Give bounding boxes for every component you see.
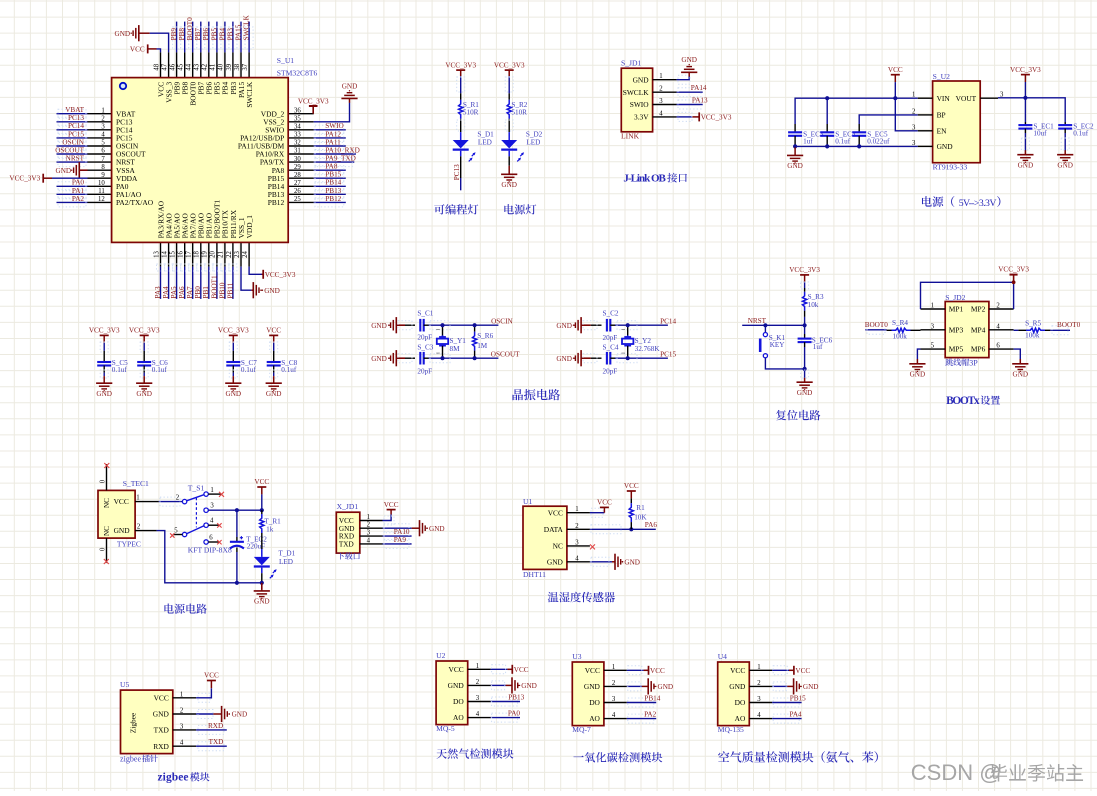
wire net PB0 (pin 18) [197, 264, 205, 299]
wire S_EC2 to GND [1061, 133, 1069, 151]
svg-text:26: 26 [294, 188, 301, 195]
svg-text:PA6: PA6 [645, 521, 658, 529]
net label PA0 [508, 710, 521, 718]
net label PA15 [234, 24, 242, 40]
svg-text:zigbee: zigbee [158, 772, 189, 784]
wire pin4 PA9 [383, 539, 412, 548]
net label PA12 [325, 130, 341, 138]
svg-text:29: 29 [294, 164, 301, 171]
wire net PA9_TXD (pin 30) [314, 158, 355, 167]
svg-text:2: 2 [137, 523, 141, 530]
svg-text:DO: DO [589, 698, 600, 707]
wire BOOT0 left to S_R4 [865, 325, 886, 334]
ground symbol GND below S_C6 [136, 376, 152, 398]
wire to GND [261, 583, 263, 589]
wire VCC_3V3 to R3 [801, 282, 809, 290]
wire net PA8 (pin 29) [314, 166, 346, 175]
junction VOUT/VCC_3V3 [1023, 96, 1027, 100]
switch T_S1 blade 5-4 [187, 526, 204, 534]
svg-text:PA0: PA0 [508, 710, 521, 718]
svg-text:DHT11: DHT11 [523, 570, 546, 579]
svg-text:SWCLK: SWCLK [243, 14, 251, 40]
svg-text:36: 36 [294, 107, 301, 114]
connector S_JD2 body [945, 302, 989, 358]
wire D2 cathode to GND [508, 156, 510, 166]
svg-text:PA2: PA2 [644, 711, 657, 719]
ground symbol GND reset [797, 378, 813, 397]
wire net OSCOUT (pin 6) [57, 150, 88, 159]
junction R1/DATA [629, 527, 633, 531]
wire T_EC2 branch [236, 510, 238, 537]
svg-text:GND: GND [787, 162, 803, 170]
svg-text:GND: GND [681, 56, 697, 64]
pin 3 stub S_U2 left [912, 124, 933, 131]
svg-text:MP1: MP1 [949, 305, 964, 314]
ground symbol GND below D2 [501, 166, 517, 189]
wire pin2 to GND [772, 682, 787, 691]
svg-text:22: 22 [226, 251, 233, 258]
net label PB15 [790, 695, 806, 703]
net label PA10 [394, 528, 410, 536]
svg-text:AO: AO [453, 713, 464, 722]
pin 1 stub U1 [567, 506, 590, 513]
svg-text:TXD: TXD [154, 726, 170, 735]
svg-text:3: 3 [476, 695, 480, 702]
svg-text:PA14: PA14 [691, 84, 707, 92]
net label PB9 [170, 28, 178, 41]
wire PA13 [677, 100, 703, 109]
switch T_S1 blade 2-1 [187, 495, 204, 501]
svg-text:42: 42 [202, 63, 209, 70]
svg-text:S_R4: S_R4 [892, 319, 908, 327]
svg-text:STM32C8T6: STM32C8T6 [277, 68, 318, 77]
designator S_JD2 [945, 293, 965, 302]
wire pin 23 VSS_1 to GND [241, 267, 251, 291]
svg-text:GND: GND [429, 525, 445, 533]
pin 47 top stub [161, 52, 168, 77]
svg-text:PB14: PB14 [644, 695, 660, 703]
pin 2 GND stub [135, 523, 157, 530]
module U2 MQ-5 body [436, 661, 468, 725]
svg-text:GND: GND [658, 683, 674, 691]
svg-text:5: 5 [931, 343, 935, 350]
svg-text:S_R6: S_R6 [477, 332, 493, 340]
pin 2 stub U4 [749, 680, 772, 687]
wire net PB8 (pin 45) [181, 22, 189, 53]
wire net VBAT (pin 1) [57, 109, 88, 118]
svg-text:2: 2 [757, 680, 761, 687]
pin 35 right stub [288, 116, 314, 123]
svg-text:47: 47 [161, 63, 168, 70]
svg-text:VCC_3V3: VCC_3V3 [789, 266, 820, 274]
svg-text:PB4: PB4 [218, 28, 226, 41]
svg-text:BOOTx: BOOTx [946, 395, 980, 407]
svg-text:U2: U2 [436, 651, 445, 660]
svg-text:10: 10 [98, 180, 105, 187]
svg-text:PB12: PB12 [325, 195, 341, 203]
net label PA3 [154, 286, 162, 299]
svg-text:3: 3 [612, 696, 616, 703]
svg-text:PC15: PC15 [660, 350, 676, 358]
svg-text:J-Link OB: J-Link OB [623, 173, 666, 185]
junction VCC/loop corner [1012, 280, 1016, 284]
net label PA0 [72, 179, 85, 187]
wire pin1 loop to pin2 and VCC_3V3 [921, 282, 1014, 309]
pin 2 stub X_JD1 [360, 522, 383, 529]
wire GND to S_C2 [581, 321, 601, 330]
wire GND rail [795, 145, 918, 147]
svg-text:3: 3 [180, 723, 184, 730]
capacitor S_C2 20pF [603, 310, 619, 342]
svg-text:U5: U5 [120, 680, 129, 689]
wire net PB9 (pin 46) [173, 22, 181, 53]
net label OSCIN [62, 138, 84, 146]
pin 16 bottom stub [178, 242, 185, 266]
pin 1 stub S_U2 left [912, 92, 933, 99]
svg-text:VCC_3V3: VCC_3V3 [89, 327, 120, 335]
svg-text:KFT DIP-8X8: KFT DIP-8X8 [188, 546, 232, 555]
net label PA1 [72, 187, 85, 195]
designator U3 [572, 652, 581, 661]
svg-text:VCC: VCC [795, 667, 810, 675]
svg-text:GND: GND [232, 711, 248, 719]
label 下载口 [337, 552, 360, 559]
svg-text:S_JD1: S_JD1 [621, 58, 641, 67]
svg-text:S_R3: S_R3 [808, 293, 824, 301]
wire pin2 to GND [627, 682, 642, 691]
wire S_C2 to PC14 [610, 321, 668, 330]
svg-text:3: 3 [367, 530, 371, 537]
pin 14 bottom stub [161, 242, 168, 266]
svg-text:10k: 10k [808, 301, 819, 309]
connector S_JD1 body [621, 68, 652, 132]
pin 3 stub U4 [749, 696, 772, 703]
wire net PA12 (pin 33) [314, 133, 346, 142]
pin 3 stub U5 [173, 723, 196, 730]
svg-text:VCC: VCC [114, 497, 129, 506]
svg-text:20pF: 20pF [603, 367, 618, 375]
pin 2 stub S_JD1 [653, 86, 677, 93]
resistor S_R2 510R [507, 93, 528, 119]
svg-text:510R: 510R [511, 108, 527, 116]
ground symbol GND right of X_JD1 [412, 520, 428, 536]
svg-text:30: 30 [294, 156, 301, 163]
capacitor S_EC5 0.022uf [852, 124, 890, 146]
svg-text:4: 4 [659, 110, 663, 117]
net label PB13 [325, 187, 341, 195]
svg-text:MP6: MP6 [971, 345, 986, 354]
pin 4 stub S_JD1 [653, 110, 677, 117]
net label PC14 [660, 317, 676, 325]
power VCC_3V3 above S_R1 [445, 61, 476, 76]
net label PA9 [394, 536, 407, 544]
net label PA10_RXD [325, 146, 359, 154]
svg-text:PC14: PC14 [660, 317, 676, 325]
svg-text:1: 1 [180, 691, 183, 698]
pin 3 stub S_JD2 left [921, 323, 946, 330]
pin 42 top stub [202, 52, 209, 77]
pin 22 bottom stub [226, 242, 233, 266]
svg-text:VCC_3V3: VCC_3V3 [129, 327, 160, 335]
power VCC U2 [507, 665, 528, 674]
svg-text:PA8: PA8 [325, 163, 338, 171]
svg-text:T_S1: T_S1 [188, 483, 205, 492]
svg-text:2: 2 [101, 116, 105, 123]
svg-text:25: 25 [294, 196, 301, 203]
sensor U1 DHT11 body [523, 506, 567, 569]
svg-text:PA13: PA13 [692, 96, 708, 104]
wire pin3 PB13 [491, 697, 520, 706]
svg-text:KEY: KEY [770, 341, 786, 349]
svg-text:RXD: RXD [339, 533, 354, 541]
value MQ-135 [718, 725, 744, 734]
pin 33 right stub [288, 132, 314, 139]
svg-text:0.1uf: 0.1uf [281, 366, 297, 374]
power VCC above X_JD1 [384, 501, 399, 515]
wire GND to S_C3 [396, 354, 415, 363]
wire net PB10 (pin 21) [221, 264, 229, 299]
net label PA9_TXD [325, 155, 356, 163]
title 可编程灯 [434, 204, 478, 214]
power VCC above S_U2 [888, 66, 903, 82]
junction S_Y2 top [626, 323, 630, 327]
svg-text:23: 23 [234, 251, 241, 258]
watermark CSDN @毕业季站主 [911, 760, 1083, 785]
svg-text:PA15: PA15 [234, 24, 242, 40]
svg-text:SWIO: SWIO [630, 100, 650, 109]
svg-text:5: 5 [174, 527, 178, 534]
svg-text:VCC: VCC [650, 667, 665, 675]
wire VCC_3V3 pin 9 [52, 177, 88, 179]
ground symbol GND below S_EC1 [1017, 150, 1033, 169]
pin 1 left stub [88, 107, 112, 114]
ground symbol GND power circuit [254, 589, 270, 606]
net label PA4 [162, 286, 170, 299]
power VCC_3V3 above S_C6 [129, 327, 160, 343]
svg-text:18: 18 [194, 251, 201, 258]
svg-text:GND: GND [136, 390, 152, 398]
svg-text:PA1: PA1 [72, 187, 85, 195]
connector S_TEC1 TYPEC body [98, 490, 135, 538]
svg-text:DATA: DATA [544, 525, 564, 534]
svg-text:4: 4 [180, 740, 184, 747]
svg-text:GND: GND [226, 390, 242, 398]
svg-text:TYPEC: TYPEC [117, 539, 141, 548]
wire S_C4 to PC15 [610, 354, 668, 363]
svg-text:VOUT: VOUT [956, 94, 977, 103]
wire NRST node [742, 317, 804, 325]
net label PC14 [68, 122, 84, 130]
wire pin1 to VCC [196, 688, 211, 702]
svg-text:13: 13 [153, 251, 160, 258]
junction VIN/VCC [893, 96, 897, 100]
pin 1 stub U2 [468, 663, 491, 670]
svg-text:X_JD1: X_JD1 [337, 502, 359, 511]
svg-text:VBAT: VBAT [65, 106, 84, 114]
power VCC above U5 [204, 672, 219, 689]
svg-text:MP3: MP3 [949, 325, 964, 334]
pin 0 top stub with no-connect [99, 463, 109, 490]
net label PC15 [68, 130, 84, 138]
svg-text:4: 4 [575, 555, 579, 562]
regulator S_U2 body [933, 81, 981, 163]
net label PB13 [508, 694, 524, 702]
svg-text:NRST: NRST [66, 155, 85, 163]
svg-text:2: 2 [367, 522, 371, 529]
wire pin 35 VSS_2 to GND [314, 103, 350, 122]
svg-text:GND: GND [937, 142, 954, 151]
wire VIN rail to caps [795, 98, 918, 124]
svg-text:PB1: PB1 [202, 286, 210, 299]
value STM32C8T6 [277, 68, 318, 77]
wire GND to pin 47 (VSS_3) top-left [139, 33, 169, 52]
wire pin1 to VCC [383, 514, 395, 525]
junction S_Y1 top [440, 323, 444, 327]
svg-text:VCC: VCC [254, 478, 269, 486]
net label BOOT0 right [1057, 321, 1081, 329]
pin 4 stub U2 [468, 711, 491, 718]
svg-text:24: 24 [242, 251, 249, 258]
svg-text:VCC: VCC [514, 666, 529, 674]
wire pin2 DATA to PA6 [590, 525, 656, 534]
net label PB8 [178, 28, 186, 41]
svg-text:4: 4 [996, 323, 1000, 330]
svg-text:GND: GND [547, 557, 564, 566]
wire net PB3 (pin 39) [229, 22, 237, 53]
svg-text:21: 21 [218, 251, 225, 258]
svg-text:GND: GND [624, 558, 640, 566]
net label PB12 [325, 195, 341, 203]
svg-text:PB14: PB14 [325, 179, 341, 187]
switch T_S1 contact 1 with no-connect [204, 487, 224, 497]
svg-text:15: 15 [169, 251, 176, 258]
wire pin4 to GND [590, 557, 612, 566]
svg-text:31: 31 [294, 148, 301, 155]
svg-text:PB5: PB5 [210, 28, 218, 41]
wire LED to bottom rail [261, 573, 263, 583]
label TYPEC [117, 539, 141, 548]
svg-text:35: 35 [294, 116, 301, 123]
svg-text:S_D1: S_D1 [477, 130, 494, 138]
wire net SWIO (pin 34) [314, 125, 346, 134]
title 一氧化碳检测模块 [573, 752, 662, 763]
svg-text:10K: 10K [634, 513, 647, 521]
net label PB14 [644, 695, 660, 703]
svg-text:0: 0 [99, 547, 106, 551]
wire net BOOT1 (pin 20) [213, 264, 221, 299]
svg-text:3: 3 [575, 539, 579, 546]
pin 2 stub U1 [567, 523, 590, 530]
net label SWIO [325, 122, 343, 130]
wire net PB1 (pin 19) [205, 264, 213, 299]
net label PA4 [790, 711, 803, 719]
wire S_C8 to GND [270, 366, 278, 379]
ground symbol GND U2 [506, 677, 521, 693]
svg-text:20: 20 [210, 251, 217, 258]
pin 27 right stub [288, 180, 314, 187]
capacitor S_EC1 10uf [1018, 122, 1054, 137]
pin 30 right stub [288, 156, 314, 163]
svg-text:S_D2: S_D2 [526, 130, 543, 138]
svg-text:43: 43 [194, 63, 201, 70]
designator T_S1 [188, 483, 205, 492]
svg-text:S_U1: S_U1 [277, 56, 295, 65]
svg-text:8: 8 [101, 164, 105, 171]
svg-text:MQ-5: MQ-5 [436, 724, 455, 733]
wire pin1 to GND [677, 75, 690, 84]
net label PB7 [194, 28, 202, 41]
wire pin2 to GND [383, 524, 412, 533]
pin 32 right stub [288, 140, 314, 147]
wire net PA4 (pin 14) [165, 264, 173, 299]
power VCC_3V3 above S_R2 [494, 61, 525, 76]
svg-text:GND: GND [371, 322, 387, 330]
svg-text:GND: GND [521, 682, 537, 690]
svg-text:GND: GND [96, 390, 112, 398]
net label PC13 [453, 164, 461, 180]
wire VCC_3V3 to R2 [505, 76, 513, 93]
capacitor S_EC6 1uf [798, 325, 833, 369]
svg-text:3P: 3P [969, 358, 978, 367]
power VCC above T_R1 [254, 478, 269, 494]
pin 23 bottom stub [234, 242, 241, 266]
wire net PC15 (pin 4) [57, 133, 88, 142]
pin 15 bottom stub [169, 242, 176, 266]
ground symbol GND U4 [787, 678, 802, 694]
value MQ-5 [436, 724, 455, 733]
pin 3 stub VOUT right [980, 92, 1004, 99]
junction S_EC4 bottom [825, 144, 829, 148]
switch T_S1 contact 4 with no-connect [204, 518, 222, 528]
wire R1 to LED D1 [457, 119, 465, 132]
svg-text:VCC: VCC [154, 693, 169, 702]
svg-text:S_C4: S_C4 [603, 343, 619, 351]
svg-text:1uf: 1uf [813, 343, 823, 351]
pin 40 top stub [218, 52, 225, 77]
wire net SWCLK (pin 37) [245, 22, 253, 53]
svg-text:3: 3 [659, 98, 663, 105]
svg-text:PB6: PB6 [202, 28, 210, 41]
resistor R1 10K [629, 498, 647, 529]
svg-text:9: 9 [101, 172, 105, 179]
wire net PA6 (pin 16) [181, 264, 189, 299]
svg-text:1k: 1k [266, 525, 274, 533]
svg-text:1: 1 [612, 664, 615, 671]
pin 4 stub U3 [604, 712, 627, 719]
svg-text:3: 3 [101, 124, 105, 131]
label zigbee插针 [120, 755, 158, 764]
svg-text:GND: GND [153, 710, 170, 719]
net label PB11 [226, 282, 234, 298]
junction LED bottom [260, 581, 264, 585]
wire VOUT rail [998, 98, 1065, 122]
title zigbee模块 [158, 772, 210, 784]
svg-text:S_R5: S_R5 [1025, 320, 1041, 328]
ground symbol GND below S_C5 [96, 376, 112, 398]
resistor S_R3 10k [803, 288, 824, 317]
svg-text:GND: GND [371, 355, 387, 363]
pin 4 stub U1 [567, 555, 590, 562]
junction NRST/R3 [803, 323, 807, 327]
junction S_EC3 bottom [793, 144, 797, 148]
pin 1 VCC stub [135, 494, 159, 501]
title 天然气检测模块 [436, 748, 513, 758]
ground symbol GND left of S_C2 [573, 317, 581, 333]
svg-text:AO: AO [589, 714, 600, 723]
pin 8 left stub [88, 164, 112, 171]
pin 19 bottom stub [202, 242, 209, 266]
svg-text:MQ-7: MQ-7 [572, 725, 591, 734]
